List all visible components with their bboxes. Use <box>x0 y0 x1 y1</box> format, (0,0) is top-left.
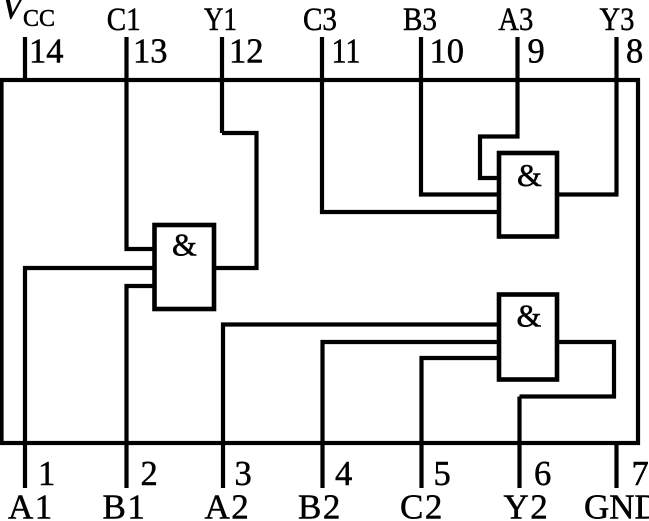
svg-text:CC: CC <box>23 6 55 32</box>
pin 4 wire (B2): from bottom stub up to gate U2 input 2 <box>323 342 502 488</box>
svg-text:13: 13 <box>133 33 168 71</box>
svg-text:10: 10 <box>430 33 465 71</box>
svg-text:&: & <box>517 157 542 193</box>
pin 13 wire (C1): stub into chip down to gate U1 input 1 <box>127 37 157 249</box>
IC body outline <box>2 80 639 443</box>
pin 1 wire (A1): from bottom stub up to gate U1 input 2 <box>25 268 156 488</box>
pin 11 wire (C3): down to gate U3 input 3 <box>322 37 501 212</box>
pin 12 wire (Y1): stub down to jog <box>220 37 224 133</box>
svg-text:12: 12 <box>229 33 264 71</box>
wire U3 output: gate right edge to pin 8 <box>556 192 619 196</box>
pin 5 wire (C2): from bottom stub up to gate U2 input 3 <box>422 358 502 488</box>
AND gate U2 box <box>499 295 557 380</box>
pin 6 wire (Y2): bottom stub up to return wire <box>517 397 521 489</box>
AND gate U3 box <box>499 153 557 237</box>
pin 3 wire (A2): from bottom stub up to gate U2 input 1 <box>223 325 501 489</box>
pin 7 stub (GND) <box>614 443 618 488</box>
svg-text:14: 14 <box>29 33 64 71</box>
wire U2 output: right, down, left to pin 6 <box>520 342 615 397</box>
pin 8 wire (Y3): stub down into chip <box>614 37 618 194</box>
svg-text:B1: B1 <box>103 488 147 521</box>
pin 10 wire (B3): down to gate U3 input 2 <box>421 37 501 195</box>
wire U1 output jog: up from gate output to pin 12 <box>214 133 257 268</box>
pin 14 stub (Vcc) <box>23 37 27 80</box>
svg-text:9: 9 <box>528 33 545 71</box>
svg-text:&: & <box>517 298 542 334</box>
svg-text:A2: A2 <box>205 488 251 521</box>
svg-text:11: 11 <box>332 33 361 71</box>
pin 2 wire (B1): from bottom stub up to gate U1 input 3 <box>127 286 157 488</box>
svg-text:&: & <box>172 227 197 263</box>
svg-text:8: 8 <box>626 33 643 71</box>
AND gate U1 box <box>155 225 215 309</box>
svg-text:A1: A1 <box>8 488 54 521</box>
svg-text:C2: C2 <box>400 488 444 521</box>
svg-text:GND: GND <box>584 488 649 521</box>
svg-text:Y2: Y2 <box>504 488 550 521</box>
pin 9 wire (A3): down, jog left, to gate U3 input 1 <box>480 37 518 178</box>
svg-text:B2: B2 <box>298 488 342 521</box>
